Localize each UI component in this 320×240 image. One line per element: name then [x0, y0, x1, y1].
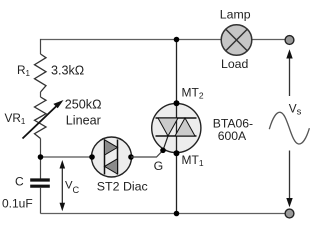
- svg-text:Load: Load: [221, 57, 249, 71]
- svg-text:G: G: [154, 159, 164, 173]
- svg-text:MT2: MT2: [182, 86, 204, 101]
- svg-text:C: C: [15, 174, 24, 188]
- svg-text:0.1uF: 0.1uF: [2, 197, 33, 211]
- svg-text:Vs: Vs: [289, 101, 302, 117]
- svg-text:ST2 Diac: ST2 Diac: [97, 179, 148, 193]
- svg-text:VC: VC: [65, 179, 80, 195]
- svg-text:MT1: MT1: [182, 153, 204, 168]
- svg-text:3.3kΩ: 3.3kΩ: [51, 64, 84, 78]
- svg-text:Lamp: Lamp: [220, 8, 251, 22]
- svg-text:Linear: Linear: [66, 114, 101, 128]
- svg-text:VR1: VR1: [5, 111, 26, 126]
- svg-text:600A: 600A: [218, 129, 247, 143]
- svg-text:250kΩ: 250kΩ: [65, 97, 102, 111]
- svg-text:R1: R1: [17, 63, 31, 78]
